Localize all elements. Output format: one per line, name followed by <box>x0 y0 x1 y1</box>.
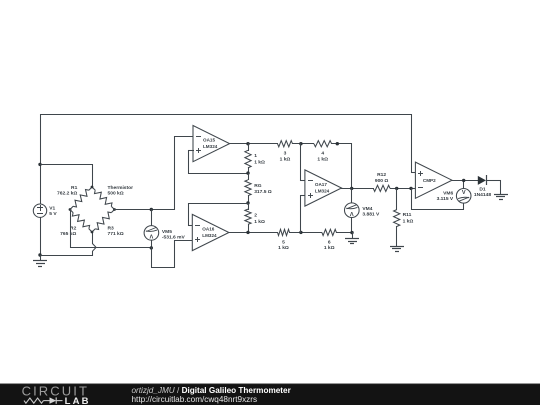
svg-text:1N4148: 1N4148 <box>474 192 491 198</box>
op-amp OA17 LM324 <box>305 170 342 206</box>
wire VM5 top lead <box>151 209 153 226</box>
wire VM6 return down <box>411 188 413 210</box>
svg-text:R1: R1 <box>71 185 78 191</box>
ground at V1 <box>33 255 47 267</box>
svg-text:V1: V1 <box>49 206 55 212</box>
node resistor1/RG junction <box>246 171 249 174</box>
footer bar <box>0 384 540 406</box>
wire D1 cathode to ground drop <box>486 180 501 182</box>
node OA17 output junction <box>350 187 353 190</box>
node resistor 6 / VM4 / ground junction <box>350 231 353 234</box>
wire into OA17 inverting input <box>300 180 305 182</box>
resistor 6 1 kOhm <box>322 229 337 251</box>
wire resistor 2 top lead <box>248 203 250 210</box>
svg-text:5: 5 <box>282 239 285 245</box>
CircuitLab logo wordmark <box>22 384 91 407</box>
svg-text:RG: RG <box>254 183 262 189</box>
voltage source V1 5 V <box>33 204 57 217</box>
svg-text:500 kΩ: 500 kΩ <box>108 191 124 197</box>
svg-text:CMP2: CMP2 <box>423 178 436 183</box>
resistor R1 762.2 kOhm (bridge upper-left) <box>57 185 92 209</box>
wire VM6 top lead <box>463 180 465 189</box>
svg-text:-531.6 mV: -531.6 mV <box>162 235 186 241</box>
wire OA15 feedback to resistor node 1 <box>188 173 249 175</box>
wire OA15 output <box>229 143 278 145</box>
wire up to OA16 non-inverting level <box>174 240 176 268</box>
voltmeter VM6 reading 3.115 V <box>437 189 471 204</box>
svg-text:3: 3 <box>284 151 287 157</box>
logo resistor-diode doodle <box>24 397 63 403</box>
wire ground rail under bridge <box>40 255 93 257</box>
node bridge bottom <box>91 231 94 234</box>
node resistor 4 output junction <box>336 142 339 145</box>
wire R11 bottom lead <box>396 226 398 247</box>
node OA17 inverting branch junction <box>299 142 302 145</box>
wire VM4 top lead <box>351 188 353 204</box>
wire R11 top lead <box>396 188 398 210</box>
thermistor 500 kOhm (bridge upper-right) <box>92 185 133 209</box>
wire bridge bottom node to ground rail (hops over crossing wire) <box>93 232 97 256</box>
resistor 3 1 kOhm <box>278 141 293 163</box>
resistor 5 1 kOhm <box>278 229 290 251</box>
svg-text:5 V: 5 V <box>49 211 57 217</box>
node bridge left <box>69 208 72 211</box>
svg-text:VM4: VM4 <box>362 206 372 212</box>
svg-text:OA15: OA15 <box>203 137 215 142</box>
svg-text:LM324: LM324 <box>315 189 330 194</box>
wire resistor 4 to feedback corner <box>331 143 352 145</box>
svg-text:317.5 Ω: 317.5 Ω <box>254 189 272 195</box>
wire up to OA17 non-inverting input <box>300 195 302 233</box>
svg-text:R12: R12 <box>377 172 386 178</box>
svg-text:LAB: LAB <box>65 396 91 405</box>
op-amp OA16 LM324 <box>192 214 229 250</box>
ground at OA17 network <box>345 232 359 244</box>
wire bridge right node to OA15 inverting vertical <box>114 209 175 211</box>
svg-text:900 Ω: 900 Ω <box>375 178 389 184</box>
resistor R2 765 kOhm (bridge lower-left) <box>60 210 92 237</box>
wire into OA15 inverting input <box>174 136 194 138</box>
svg-text:1: 1 <box>254 153 257 159</box>
wire into OA16 non-inverting input <box>174 240 193 242</box>
footer credit line <box>132 386 292 404</box>
svg-text:R11: R11 <box>403 212 412 218</box>
resistor RG 317.5 Ohm <box>245 180 272 196</box>
svg-text:771 kΩ: 771 kΩ <box>108 231 124 237</box>
node VM5 bottom junction <box>150 246 153 249</box>
wire V1 positive terminal up to top rail <box>40 114 42 205</box>
svg-text:1 kΩ: 1 kΩ <box>278 245 289 251</box>
wire VM5 bottom lead <box>151 240 153 248</box>
wire down to ground at D1 <box>500 180 502 195</box>
wire OA17 output <box>341 188 374 190</box>
wire RG top lead <box>248 173 250 180</box>
svg-text:4: 4 <box>321 151 324 157</box>
svg-text:http://circuitlab.com/cwq48nrt: http://circuitlab.com/cwq48nrt9xzrs <box>132 395 258 404</box>
svg-text:3.115 V: 3.115 V <box>437 196 454 202</box>
wire down to OA17 inverting input <box>300 143 302 181</box>
wire OA15 non-inverting stub <box>188 150 194 174</box>
op-amp OA15 LM324 <box>193 126 230 162</box>
node resistor2 bottom junction <box>246 231 249 234</box>
comparator CMP2 <box>415 162 452 198</box>
wire feedback down to OA17 output <box>351 143 353 189</box>
svg-text:ortizjd_JMU / Digital Galileo: ortizjd_JMU / Digital Galileo Thermomete… <box>132 386 292 395</box>
wire resistor 5 to junction <box>289 232 322 234</box>
wire resistor 1 bottom lead <box>248 167 250 174</box>
wire RG bottom lead <box>248 195 250 204</box>
svg-text:V: V <box>149 232 153 238</box>
node bridge top <box>91 186 94 189</box>
wire top rail from V1 to CMP2 non-inverting branch <box>40 114 412 116</box>
wire VM6 bottom lead <box>463 203 465 210</box>
node bridge right <box>113 208 116 211</box>
svg-text:1 kΩ: 1 kΩ <box>254 159 265 165</box>
diode D1 1N4148 <box>474 175 491 198</box>
node junction on V1 wire feeding bridge <box>38 163 41 166</box>
node CMP2 output / VM6 junction <box>462 179 465 182</box>
wire resistor 2 bottom lead <box>248 224 250 233</box>
node V1 ground junction <box>38 253 41 256</box>
svg-text:VM6: VM6 <box>443 191 453 197</box>
svg-text:LM324: LM324 <box>202 233 217 238</box>
wire from V1 branch to bridge top <box>40 164 93 188</box>
resistor R3 771 kOhm (bridge lower-right) <box>92 210 124 237</box>
resistor 4 1 kOhm feedback <box>314 141 332 163</box>
svg-text:1 kΩ: 1 kΩ <box>403 218 414 224</box>
svg-text:1 kΩ: 1 kΩ <box>280 156 291 162</box>
node OA15 output junction <box>246 142 249 145</box>
svg-text:V: V <box>350 210 354 216</box>
wire resistor 3 to node <box>292 143 314 145</box>
ground at D1 <box>494 195 508 200</box>
voltmeter VM5 reading -531.6 mV <box>144 226 185 241</box>
ground at R11 <box>390 247 404 252</box>
svg-text:6: 6 <box>328 239 331 245</box>
wire across bottom of OA16 loop <box>151 267 175 269</box>
voltmeter VM4 reading 3.881 V <box>345 203 380 218</box>
wire RG junction to OA16 inverting stub <box>188 203 249 205</box>
resistor R11 1 kOhm <box>394 210 414 227</box>
svg-text:Thermistor: Thermistor <box>108 185 134 191</box>
wire R12 to R11 node <box>390 188 412 190</box>
wire vertical up to OA15 inverting input <box>174 136 176 210</box>
wire bridge left node across to VM5 bottom <box>70 247 152 249</box>
svg-text:VM5: VM5 <box>162 229 172 235</box>
wire OA16 inverting stub down <box>188 203 190 226</box>
wire V1 negative terminal down to ground rail <box>40 217 42 256</box>
svg-text:3.881 V: 3.881 V <box>362 212 380 218</box>
svg-text:V: V <box>462 190 466 196</box>
wire VM4 bottom lead <box>351 217 353 233</box>
wire VM6 return across <box>411 209 464 211</box>
node VM6 return junction <box>409 187 412 190</box>
svg-text:765 kΩ: 765 kΩ <box>60 231 76 237</box>
svg-text:1 kΩ: 1 kΩ <box>317 156 328 162</box>
svg-text:1 kΩ: 1 kΩ <box>254 219 265 225</box>
wire VM5 bottom junction down <box>151 247 153 268</box>
node OA17 non-inverting branch junction <box>299 231 302 234</box>
svg-text:OA17: OA17 <box>315 182 327 187</box>
wire resistor 6 to ground node <box>336 232 353 234</box>
node VM5 top junction <box>150 208 153 211</box>
wire into OA16 inverting input <box>188 225 193 227</box>
resistor 2 1 kOhm <box>245 209 265 225</box>
node R11 top junction <box>395 187 398 190</box>
wire CMP2 output <box>452 180 478 182</box>
svg-text:OA16: OA16 <box>202 226 214 231</box>
wire into OA17 non-inverting input <box>300 195 305 197</box>
svg-text:1 kΩ: 1 kΩ <box>324 245 335 251</box>
svg-text:D1: D1 <box>479 186 486 192</box>
wire top rail down to CMP2 non-inverting <box>411 114 416 173</box>
resistor R12 900 Ohm <box>373 172 390 192</box>
svg-text:LM324: LM324 <box>203 144 218 149</box>
wire into CMP2 inverting input <box>411 188 416 190</box>
svg-text:762.2 kΩ: 762.2 kΩ <box>57 191 77 197</box>
resistor 1 1 kOhm <box>245 150 265 168</box>
wire OA16 output <box>228 232 278 234</box>
svg-text:2: 2 <box>254 213 257 219</box>
svg-text:R3: R3 <box>108 226 115 232</box>
wire OA15 output junction down <box>248 143 250 151</box>
wire bridge left node down <box>70 209 72 248</box>
node RG/resistor2 junction <box>246 201 249 204</box>
